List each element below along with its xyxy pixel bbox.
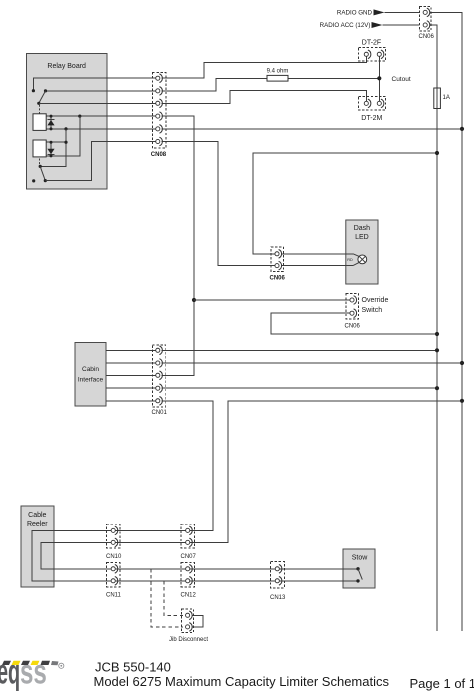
fuse F1 1A xyxy=(434,88,441,109)
node CN01-1 junction xyxy=(435,348,439,352)
svg-text:Cable: Cable xyxy=(28,512,46,519)
node cutout junction xyxy=(377,76,381,80)
svg-text:Jib Disconnect: Jib Disconnect xyxy=(169,637,208,643)
wire reeler inner loop to stow top and right bus xyxy=(41,401,462,569)
svg-text:JCB 550-140: JCB 550-140 xyxy=(95,659,171,674)
wire sw2 blade to CN08-6 xyxy=(45,142,155,181)
wire CN08-6 to dash CN06-2 xyxy=(162,142,275,266)
svg-text:Page 1 of 1: Page 1 of 1 xyxy=(410,676,474,691)
svg-text:Interface: Interface xyxy=(78,377,104,384)
wire cabin to CN01-2 xyxy=(106,362,155,364)
node sw1 blade end xyxy=(37,102,40,105)
wire CN08-1 to DT-2F pin1 xyxy=(162,56,367,78)
connector DT-2M xyxy=(359,97,386,111)
wire jib disconnect branch A (dashed) xyxy=(151,569,183,627)
wire RADIO ACC lead xyxy=(383,24,420,26)
wire coil1-top down to coil2-bottom xyxy=(46,116,80,156)
wire dash CN06-1 to right bus xyxy=(253,153,437,254)
wire CN01-5 to reeler loop and stow bottom xyxy=(32,401,358,581)
node override return junction xyxy=(435,332,439,336)
arrow RADIO ACC xyxy=(372,22,383,28)
svg-text:CN06: CN06 xyxy=(270,276,286,282)
stow switch blade xyxy=(358,569,362,580)
svg-text:CN07: CN07 xyxy=(181,554,197,560)
node sw2 open contact xyxy=(32,179,35,182)
svg-text:Switch: Switch xyxy=(362,307,383,314)
wire cabin to CN01-1 xyxy=(106,349,155,351)
wire jib disconnect branch B (dashed) xyxy=(164,581,183,616)
wire override CN06-1 feed xyxy=(194,299,350,301)
lamp LED1 xyxy=(358,255,367,264)
svg-text:LED: LED xyxy=(355,234,369,241)
node CN08-5 bus junction xyxy=(460,127,464,131)
wire dash CN06-1 to lamp xyxy=(281,253,353,255)
connector CN11 xyxy=(107,563,120,587)
connector CN12 xyxy=(181,563,194,587)
wire CN08-2 through resistor to cutout junction xyxy=(162,78,380,91)
wire CN08-3 to DT-2M pin1 xyxy=(162,91,367,104)
svg-text:CN06: CN06 xyxy=(419,34,435,40)
mechanical link coil2 to sw2 (dashed) xyxy=(39,159,41,165)
wire coil1-bottom down to sw2 pivot xyxy=(40,129,66,167)
svg-text:CN01: CN01 xyxy=(152,410,168,416)
wire cabin to CN01-3 xyxy=(106,374,155,376)
wire coil1 top to CN08-4 xyxy=(46,115,155,117)
svg-text:1A: 1A xyxy=(443,95,450,101)
wire CN08-5 to right bus xyxy=(162,128,463,130)
node CN01-2 junction xyxy=(460,361,464,365)
svg-text:Cabin: Cabin xyxy=(82,366,99,373)
wire override CN06-2 loop to bus xyxy=(271,313,437,334)
node CN01-4 junction xyxy=(435,386,439,390)
svg-text:ss: ss xyxy=(20,653,47,691)
node sw1 NC contact xyxy=(32,89,35,92)
wire CN01-4 to right bus xyxy=(162,387,437,389)
relay coil K1 xyxy=(33,114,46,131)
svg-text:Cutout: Cutout xyxy=(392,76,411,83)
stow switch contacts xyxy=(356,567,359,570)
connector CN06 override xyxy=(346,294,359,320)
wire jib disconnect loop xyxy=(192,615,203,627)
svg-text:CN06: CN06 xyxy=(345,324,361,330)
wire coil1 bottom to CN08-5 xyxy=(46,128,155,130)
svg-text:CN13: CN13 xyxy=(270,595,286,601)
node sw1 pivot xyxy=(44,89,47,92)
wire net radio-acc right vertical xyxy=(430,25,438,631)
wire sw1 blade to CN08-3 xyxy=(39,102,156,104)
wire dash CN06-2 to lamp xyxy=(281,265,353,267)
wire DT-2F pin2 to DT-2M pin2 xyxy=(378,56,380,101)
svg-text:Override: Override xyxy=(362,297,389,304)
logo stripe xyxy=(2,661,11,665)
connector CN08 xyxy=(152,73,166,149)
wire RADIO GND lead xyxy=(385,11,420,13)
svg-text:CN12: CN12 xyxy=(181,593,197,599)
relay board RB1 xyxy=(27,54,108,190)
svg-text:Dash: Dash xyxy=(354,225,370,232)
node override tap xyxy=(192,298,196,302)
cable reeler module xyxy=(21,506,54,587)
connector CN13 xyxy=(271,562,285,589)
arrow RADIO GND xyxy=(374,9,385,15)
relay coil K2 xyxy=(33,140,46,157)
node coil1-top / coil2-bottom junction xyxy=(78,115,81,118)
node coil2-top junction xyxy=(64,141,67,144)
diode D2 xyxy=(50,142,52,156)
resistor R1 9.4 ohm xyxy=(267,75,288,81)
wire CN08-4 to CN01-3 xyxy=(162,116,195,375)
svg-text:RADIO ACC (12V): RADIO ACC (12V) xyxy=(320,22,371,29)
svg-text:Stow: Stow xyxy=(352,555,369,562)
wire relay sw1 NC stub xyxy=(33,78,155,91)
node row return junction xyxy=(460,399,464,403)
connector CN06 radio xyxy=(420,7,432,32)
node sw2 pivot xyxy=(39,165,42,168)
wire CN01-1 to right bus xyxy=(162,349,437,351)
node sw2 blade end xyxy=(44,179,47,182)
wire cabin to CN01-4 xyxy=(106,387,155,389)
svg-text:DT-2F: DT-2F xyxy=(362,39,381,46)
connector jib disconnect xyxy=(182,609,194,633)
mechanical link coil1 to sw1 (dashed) xyxy=(39,105,41,114)
svg-text:DT-2M: DT-2M xyxy=(361,115,382,122)
node coil1-bottom junction xyxy=(64,127,67,130)
stow switch box xyxy=(343,549,375,588)
wire cabin to CN01-5 xyxy=(106,400,155,402)
svg-text:9.4 ohm: 9.4 ohm xyxy=(267,69,289,75)
switch blade sw2 xyxy=(40,166,45,180)
wire coil2 top to x66 net xyxy=(46,141,66,143)
svg-text:CN10: CN10 xyxy=(106,554,122,560)
svg-text:Relay Board: Relay Board xyxy=(47,63,86,70)
switch blade sw1 xyxy=(39,91,46,103)
svg-text:eq: eq xyxy=(0,653,20,691)
wire CN01-2 to right bus xyxy=(162,362,462,364)
connector CN01 xyxy=(152,345,165,407)
wire relay sw1 common to CN08-2 xyxy=(46,90,156,92)
cabin interface module xyxy=(75,343,106,407)
dash LED module xyxy=(346,220,378,284)
connector CN10 xyxy=(107,524,120,548)
wire net radio-gnd right vertical xyxy=(430,12,463,631)
svg-text:RADIO GND: RADIO GND xyxy=(337,10,373,17)
logo registered mark xyxy=(59,663,64,668)
svg-text:RD: RD xyxy=(347,258,353,262)
connector CN06 dash xyxy=(271,247,284,272)
svg-text:CN08: CN08 xyxy=(151,152,167,158)
svg-text:CN11: CN11 xyxy=(106,593,122,599)
diode D1 xyxy=(50,116,52,129)
svg-text:Reeler: Reeler xyxy=(27,521,48,528)
connector CN07 xyxy=(181,524,194,548)
svg-text:Model 6275 Maximum Capacity Li: Model 6275 Maximum Capacity Limiter Sche… xyxy=(94,674,390,689)
node dash feed junction xyxy=(435,151,439,155)
